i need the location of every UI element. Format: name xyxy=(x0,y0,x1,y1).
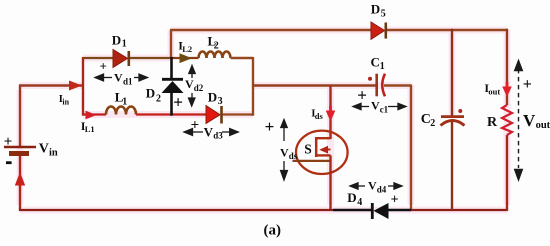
label Vd2 xyxy=(185,77,204,93)
svg-text:D: D xyxy=(146,86,155,101)
svg-text:+: + xyxy=(191,117,200,133)
label Vout xyxy=(523,111,550,131)
wire: D3 to corner junction xyxy=(223,113,254,115)
wire: R to bottom rail xyxy=(506,135,508,211)
label Iin xyxy=(59,94,70,106)
svg-text:R: R xyxy=(487,115,498,130)
transistor S (MOSFET in circle) xyxy=(293,131,348,174)
wire: riser to top rail at D2 node xyxy=(170,30,172,58)
svg-text:L2: L2 xyxy=(182,44,192,54)
label Vd1 xyxy=(114,71,133,87)
wire: C2 branch upper xyxy=(451,29,453,116)
svg-text:ds: ds xyxy=(289,151,298,161)
svg-text:1: 1 xyxy=(122,39,127,50)
wire: MOSFET source to bottom rail xyxy=(329,155,331,210)
wire: left rail xyxy=(82,57,84,116)
label Vd4 xyxy=(368,179,387,195)
label IL1 xyxy=(81,119,95,134)
annotation Vds double arrow xyxy=(281,120,288,181)
node Ids arrow xyxy=(326,106,336,122)
wire: C2 branch lower xyxy=(451,122,453,210)
annotation Vd1 double arrow xyxy=(95,74,148,81)
node battery return arrow xyxy=(15,172,25,186)
label D1 xyxy=(112,32,127,49)
wire: input top lead from battery to left rail xyxy=(20,86,83,148)
svg-text:V: V xyxy=(185,77,194,91)
svg-text:V: V xyxy=(204,124,214,139)
label C1 xyxy=(371,55,385,73)
svg-text:D: D xyxy=(208,89,217,104)
label L2 xyxy=(208,34,219,52)
capacitor C2 xyxy=(441,109,465,126)
svg-text:D: D xyxy=(371,1,380,16)
svg-text:3: 3 xyxy=(218,96,223,107)
svg-text:ds: ds xyxy=(315,111,324,121)
svg-text:D: D xyxy=(112,32,121,47)
wire: top branch left of D1 xyxy=(83,57,113,59)
diode D1 xyxy=(113,50,129,68)
label minus battery xyxy=(6,161,12,164)
svg-text:+: + xyxy=(265,117,275,136)
label IL2 xyxy=(178,39,192,54)
halo tint xyxy=(20,30,507,210)
wire: top rail left of D5 xyxy=(170,29,371,31)
wire: R branch from top rail xyxy=(506,29,508,105)
wire: top branch D2 node to L2 xyxy=(170,57,199,59)
svg-text:1: 1 xyxy=(122,97,127,108)
svg-text:d1: d1 xyxy=(123,77,133,87)
diode D5 xyxy=(371,22,386,39)
svg-text:+: + xyxy=(4,134,13,150)
label Vin xyxy=(39,141,58,158)
label Vc1 xyxy=(371,99,389,115)
svg-text:+: + xyxy=(391,193,399,208)
svg-text:C: C xyxy=(371,55,380,70)
svg-text:d3: d3 xyxy=(213,131,223,141)
svg-text:+: + xyxy=(523,76,532,93)
svg-text:d4: d4 xyxy=(377,184,387,194)
label Vds xyxy=(280,145,298,161)
wire: battery bottom lead to bottom rail xyxy=(19,156,21,211)
diode D2 vertical black branch xyxy=(162,57,184,116)
svg-text:+: + xyxy=(357,85,367,104)
label Iout xyxy=(484,81,500,97)
wire: middle branch corner to C1 xyxy=(253,84,376,86)
svg-text:V: V xyxy=(114,71,123,85)
svg-text:V: V xyxy=(371,99,380,113)
wire: bottom rail left section xyxy=(19,209,333,211)
label D2 xyxy=(146,86,161,105)
wire: lower branch rail to L1 xyxy=(83,113,106,115)
svg-text:V: V xyxy=(280,145,289,159)
wire: drain riser from middle branch xyxy=(329,86,331,140)
node Iin arrow xyxy=(69,81,82,91)
svg-text:4: 4 xyxy=(357,197,362,208)
annotation Vd2 double arrow xyxy=(189,66,196,107)
svg-text:d2: d2 xyxy=(194,83,204,93)
wire: bottom rail right section xyxy=(411,209,508,211)
annotation Vc1 double arrow xyxy=(353,103,406,109)
wire: top branch D1 to D2 node xyxy=(128,57,172,59)
svg-text:1: 1 xyxy=(380,61,385,72)
diode D3 xyxy=(206,106,222,124)
wire: top rail right of D5 xyxy=(386,29,508,31)
inductor L2 xyxy=(199,52,231,58)
svg-text:V: V xyxy=(368,179,377,193)
svg-text:5: 5 xyxy=(381,8,386,19)
svg-text:(a): (a) xyxy=(264,223,282,239)
svg-text:D: D xyxy=(347,190,356,205)
svg-text:2: 2 xyxy=(430,118,435,129)
inductor L1 xyxy=(106,107,136,115)
annotation Vd4 double arrow xyxy=(350,183,402,189)
svg-text:+: + xyxy=(100,58,107,73)
capacitor C1 xyxy=(368,74,385,97)
svg-text:2: 2 xyxy=(214,40,219,51)
svg-text:in: in xyxy=(49,147,58,158)
label D4 xyxy=(347,190,362,208)
annotation Vd3 double arrow xyxy=(184,129,238,136)
label Vd3 xyxy=(204,124,224,140)
label C2 xyxy=(421,112,436,129)
node IL1 arrow xyxy=(86,111,97,120)
node Iout arrow xyxy=(502,82,512,97)
wire: L2 to corner junction xyxy=(231,57,254,116)
svg-text:S: S xyxy=(304,142,312,157)
wire: L1 to D3 xyxy=(136,113,206,115)
wire: C1 to right corner, down to bottom rail xyxy=(384,85,411,211)
diode D4 black section of bottom rail xyxy=(333,203,411,219)
battery Vin plates xyxy=(4,147,36,156)
svg-text:V: V xyxy=(523,111,536,130)
svg-text:out: out xyxy=(488,87,500,97)
label L1 xyxy=(115,89,127,107)
resistor R xyxy=(502,105,512,135)
svg-text:+: + xyxy=(173,92,183,111)
node IL2 arrow xyxy=(180,53,193,63)
svg-text:V: V xyxy=(39,141,49,156)
svg-text:out: out xyxy=(536,120,550,131)
svg-text:2: 2 xyxy=(156,94,161,105)
annotation Vout dashed double arrow xyxy=(515,61,523,181)
label D5 xyxy=(371,1,386,19)
label D3 xyxy=(208,89,223,107)
svg-text:c1: c1 xyxy=(380,104,389,114)
svg-text:L1: L1 xyxy=(85,124,95,134)
label Ids xyxy=(311,108,323,121)
svg-text:in: in xyxy=(62,97,69,106)
